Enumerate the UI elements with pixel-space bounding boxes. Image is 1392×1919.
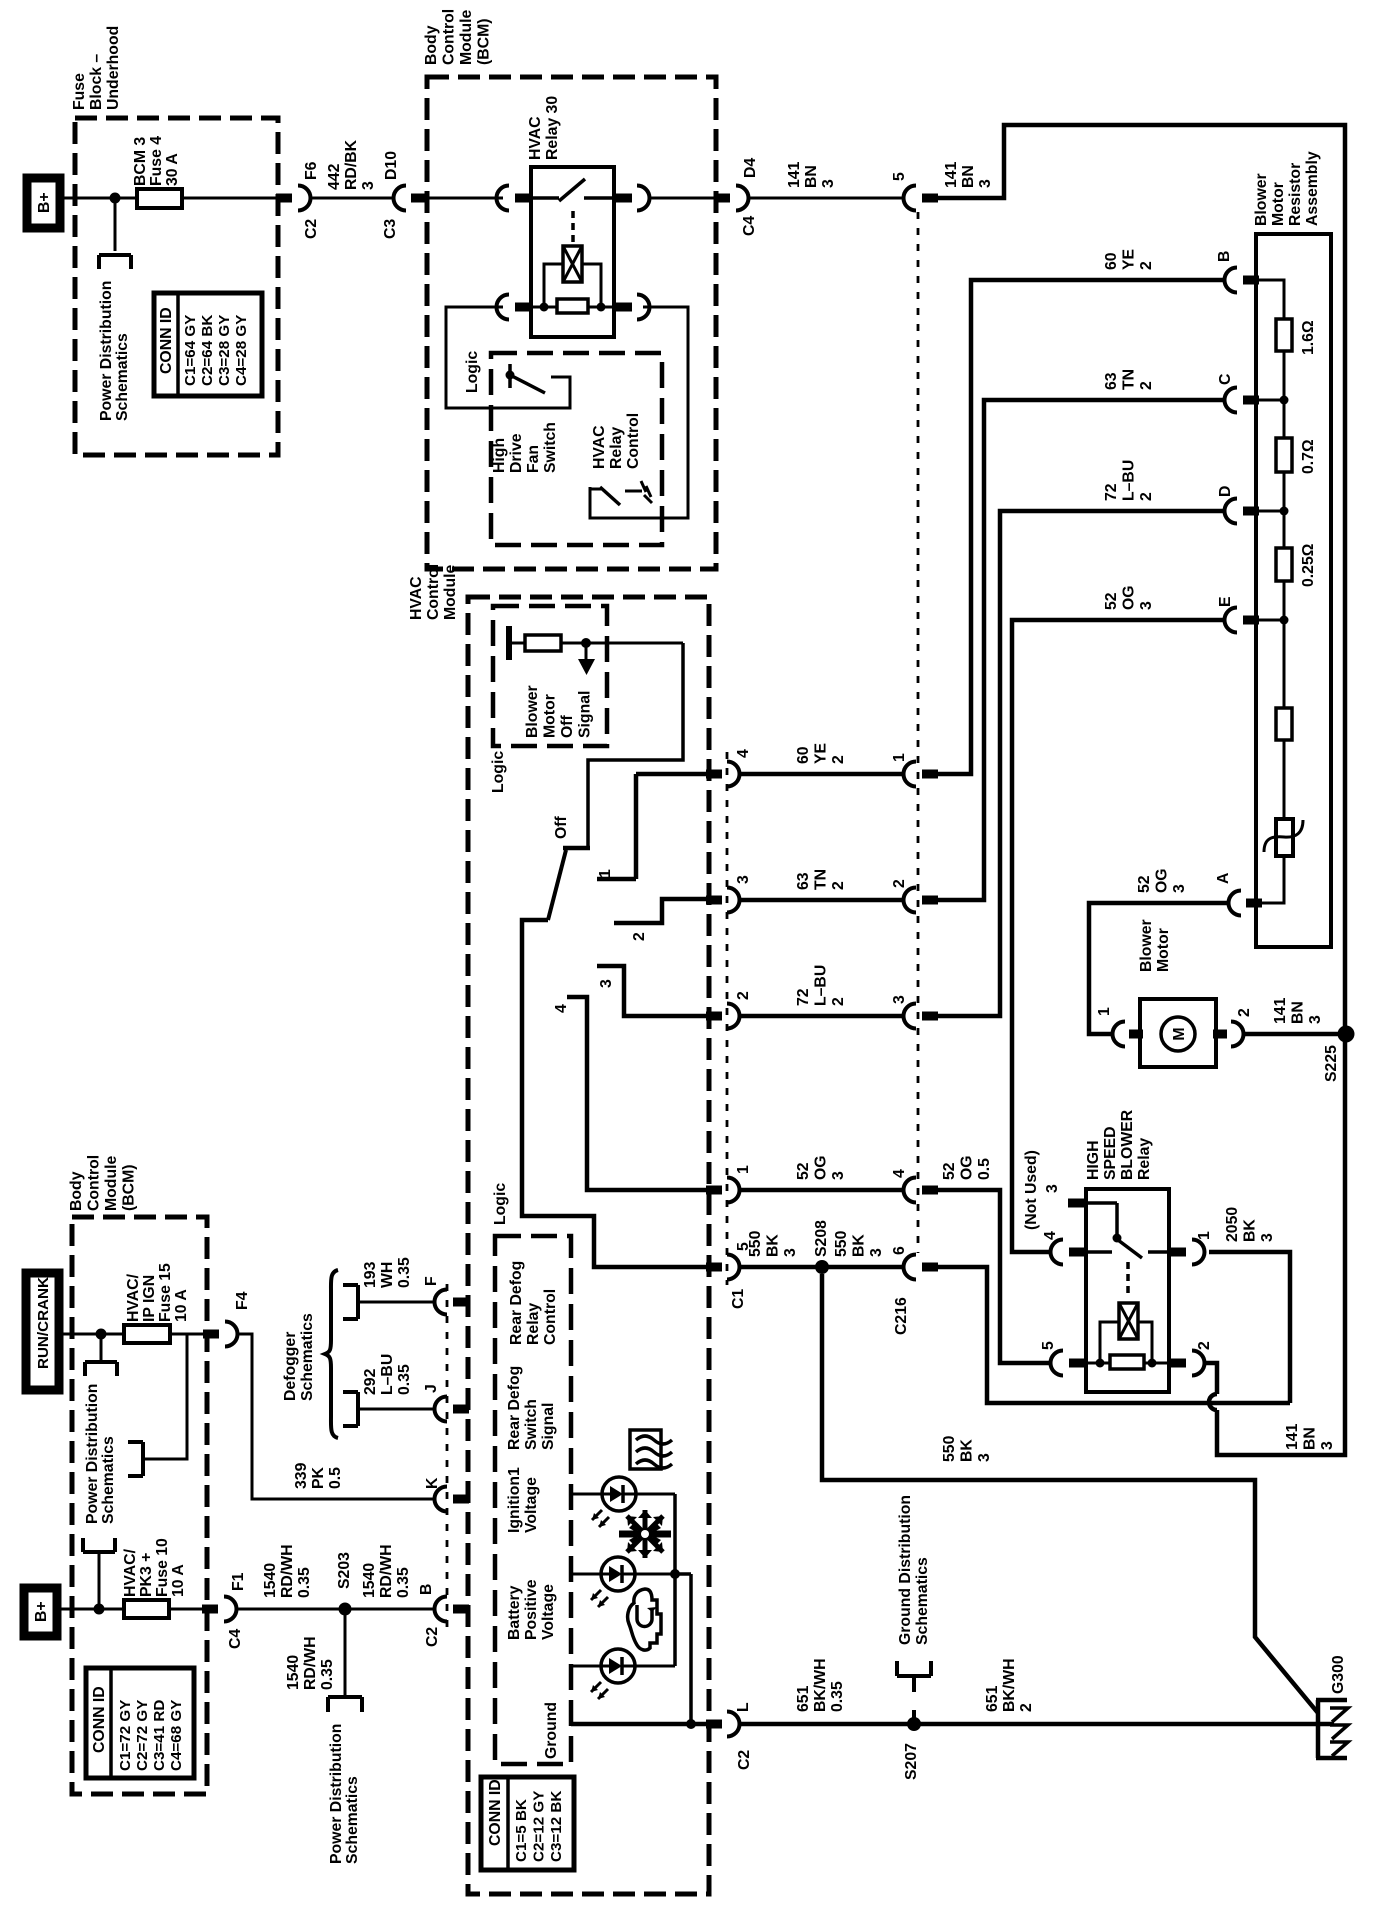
label G300	[1330, 1655, 1347, 1694]
svg-text:F4: F4	[234, 1291, 251, 1310]
svg-text:G300: G300	[1330, 1655, 1347, 1694]
svg-text:1: 1	[891, 753, 908, 762]
icon rear defog	[630, 1430, 672, 1469]
fan switch contact 3	[597, 966, 706, 1016]
wire LED2 out	[635, 1573, 691, 1576]
relay pin 2	[1170, 1351, 1205, 1376]
label relay pin 3	[1044, 1184, 1061, 1193]
label HVAC Relay 30	[527, 96, 561, 160]
label Rear Defog Switch Signal	[506, 1366, 557, 1450]
label L	[735, 1702, 752, 1712]
svg-text:2: 2	[735, 991, 752, 1000]
label pin E	[1217, 596, 1234, 607]
dashed box Body Control Module BCM 2	[72, 1217, 207, 1794]
wire 63 TN to resistor C	[938, 400, 1224, 900]
label pin D	[1217, 486, 1234, 497]
dashed box HVAC Control Module	[468, 597, 709, 1894]
thermal fuse	[1264, 819, 1303, 856]
relay 30 output wire to D4	[650, 197, 715, 200]
connector C3 terminal D10 (BCM entry)	[394, 186, 428, 211]
wire LED3 in	[571, 1665, 601, 1668]
label wire 1540 RD/WH (right)	[361, 1544, 412, 1598]
CONN ID table (BCM2)	[86, 1668, 194, 1778]
connector C216 pin 3	[904, 1004, 939, 1029]
connector HVAC C1 pin F	[434, 1290, 469, 1315]
page reference Ground Distribution	[897, 1661, 931, 1719]
splice junction on B+ feed	[110, 193, 121, 204]
fan switch contact 4	[567, 997, 706, 1190]
motor symbol M	[1161, 1017, 1195, 1051]
resistor 4 (unlabeled)	[1276, 708, 1292, 740]
svg-text:3: 3	[598, 979, 615, 988]
svg-text:4: 4	[1042, 1231, 1059, 1240]
hs relay coil parallel wiring	[1096, 1322, 1157, 1368]
connector HVAC C1 pin J	[434, 1397, 469, 1422]
relay 30 coil parallel wiring	[540, 264, 606, 312]
label fuse BCM 3	[132, 136, 181, 186]
label C3 (BCM)	[382, 219, 399, 239]
connector C1 pin 4	[706, 762, 740, 787]
label Blower Motor Off Signal	[524, 685, 594, 738]
relay 30 internal resistor	[530, 299, 620, 313]
svg-text:L: L	[735, 1702, 752, 1712]
label Blower Motor	[1138, 919, 1172, 972]
label (Not Used)	[1023, 1150, 1040, 1230]
label Power Distribution Schematics (S203)	[328, 1724, 361, 1864]
resistor chain top	[1258, 280, 1284, 319]
wire 52 OG 3	[740, 1188, 903, 1193]
wire 141 BN 3 (D4 to C216)	[749, 197, 903, 200]
label wire 52 OG 3 (left)	[795, 1155, 847, 1180]
svg-text:S203: S203	[336, 1552, 353, 1589]
dashed connector line C216	[917, 212, 920, 1253]
connector C1 pin 2	[706, 1004, 740, 1029]
svg-text:K: K	[424, 1477, 441, 1489]
label relay pin 2	[1196, 1341, 1213, 1350]
hs relay switch	[1086, 1240, 1169, 1258]
connector C1 pin 5	[706, 1255, 740, 1280]
splice on RUN/CRANK feed	[96, 1329, 107, 1340]
fuse BCM 3 / Fuse 4 / 30A	[137, 189, 276, 208]
svg-text:F1: F1	[230, 1572, 247, 1591]
indicator LED 3 (recirculation)	[591, 1649, 635, 1699]
label switch position 2	[631, 932, 648, 941]
fan switch pole wire to C1-5	[522, 920, 706, 1267]
svg-text:1.6Ω: 1.6Ω	[1300, 320, 1317, 355]
label switch position 1	[597, 869, 614, 878]
CONN ID table (fuse block)	[154, 293, 262, 396]
fan switch blade	[548, 850, 566, 920]
hs relay actuator dashed link	[1126, 1262, 1130, 1298]
relay box HVAC Relay 30	[531, 167, 614, 337]
svg-text:3: 3	[1044, 1184, 1061, 1193]
relay pin 3 stub	[1068, 1199, 1122, 1243]
relay pin 4	[1051, 1240, 1086, 1265]
label wire 141 BN 3 (after D4)	[786, 161, 837, 188]
svg-text:F: F	[423, 1276, 440, 1286]
wire resistor 4 to thermal fuse	[1283, 740, 1286, 819]
label wire 651 BK/WH 0.35	[795, 1658, 846, 1712]
label S225	[1323, 1045, 1340, 1082]
label wire 2050 BK 3	[1224, 1207, 1276, 1242]
label C1 pin 2	[735, 991, 752, 1000]
wire thermal fuse to pin A	[1258, 856, 1284, 903]
connector C216 pin 5	[904, 186, 939, 211]
label motor pin 1	[1096, 1007, 1113, 1016]
logic box (BCM high drive fan switch)	[446, 307, 570, 408]
label HVAC Relay Control	[591, 413, 642, 469]
svg-text:1: 1	[1096, 1007, 1113, 1016]
connector resistor pin B	[1225, 268, 1260, 293]
fan switch Off contact	[563, 846, 590, 851]
svg-text:Logic: Logic	[492, 1183, 509, 1225]
label HIGH SPEED BLOWER Relay	[1085, 1109, 1153, 1180]
wire blower off signal to Off contact	[588, 643, 683, 848]
svg-text:2: 2	[1196, 1341, 1213, 1350]
indicator LED 1 (rear defog)	[592, 1477, 636, 1527]
relay 30 switch	[531, 179, 620, 201]
connector C216 pin 1	[904, 762, 939, 787]
label fuse HVAC/IP IGN	[125, 1263, 190, 1322]
connector resistor pin C	[1225, 388, 1289, 413]
label Body Control Module (BCM)	[423, 9, 493, 65]
label J	[423, 1384, 440, 1393]
label C2 (fuse block)	[303, 219, 320, 239]
splice S208	[815, 1260, 829, 1274]
label High Drive Fan Switch	[491, 422, 559, 473]
splice S203	[339, 1603, 352, 1616]
wire 550 BK 3 (C1-5 to S208)	[740, 1265, 903, 1270]
svg-text:C1=64 GYC2=64 BKC3=28 GYC4=28: C1=64 GYC2=64 BKC3=28 GYC4=28 GY	[182, 315, 250, 386]
power symbol RUN/CRANK	[26, 1273, 59, 1390]
label wire 72 L-BU 2 (right)	[1103, 460, 1155, 501]
fuse HVAC/IP IGN Fuse 15 10A	[124, 1325, 204, 1343]
connector C216 pin 6	[904, 1255, 939, 1280]
label fuse HVAC/PK3+	[122, 1538, 187, 1597]
wire 60 YE 2	[740, 772, 903, 777]
ground G300	[1316, 1700, 1348, 1758]
wire 63 TN 2	[740, 898, 903, 903]
label Rear Defog Relay Control	[508, 1261, 559, 1345]
dashed connector line C1	[726, 752, 729, 1285]
blower off signal supply bar	[506, 626, 512, 660]
svg-text:S207: S207	[903, 1743, 920, 1780]
label wire 292 L-BU 0.35	[362, 1354, 413, 1395]
svg-text:J: J	[423, 1384, 440, 1393]
label C1 pin 5	[735, 1242, 752, 1251]
wire ignition to LED1	[571, 1493, 602, 1496]
label C1 pin 4	[735, 749, 752, 758]
wire 72 L-BU 2	[740, 1014, 903, 1019]
label C216 pin 2	[891, 879, 908, 888]
wire 52 OG 0.5 to relay pin 5	[938, 1190, 1050, 1363]
label switch position 4	[553, 1004, 570, 1013]
fan switch contact 2	[614, 899, 706, 923]
label Battery Positive Voltage	[506, 1579, 557, 1640]
label B (HVAC C2)	[418, 1584, 435, 1595]
connector C216 pin 2	[904, 888, 939, 913]
svg-text:C4: C4	[227, 1629, 244, 1649]
label relay pin 4	[1042, 1231, 1059, 1240]
wire 193 WH 0.35	[358, 1301, 434, 1304]
label wire 550 BK 3 (left)	[747, 1230, 799, 1257]
svg-text:(Not Used): (Not Used)	[1023, 1150, 1040, 1230]
relay 30 coil pin right	[616, 295, 650, 320]
label 0.25 ohm	[1300, 543, 1317, 587]
page reference Power Distribution (B+ lower)	[83, 1538, 115, 1552]
svg-text:E: E	[1217, 596, 1234, 607]
resistor 1.6 ohm	[1276, 319, 1292, 351]
svg-text:B: B	[418, 1584, 435, 1595]
box Blower Motor	[1140, 999, 1216, 1067]
svg-text:C2: C2	[303, 219, 320, 239]
svg-text:1: 1	[1196, 1231, 1213, 1240]
page reference Power Distribution (fuse block)	[99, 255, 131, 269]
svg-text:BatteryPositiveVoltage: BatteryPositiveVoltage	[506, 1579, 557, 1640]
connector HVAC C1 pin K	[434, 1487, 469, 1512]
dashed box logic blower motor off signal	[493, 606, 607, 746]
label Off	[553, 815, 570, 839]
page reference (ignition feed)	[128, 1442, 143, 1476]
label wire 52 OG 3 (E)	[1103, 585, 1155, 610]
label pin 5 (C216)	[891, 172, 908, 181]
label C1 pin 3	[735, 875, 752, 884]
relay 30 coil	[563, 246, 582, 282]
svg-text:F6: F6	[303, 161, 320, 180]
label wire 550 BK 3 (ground run)	[941, 1435, 993, 1462]
wire 52 OG 3 (E tap to relay pin 4)	[1012, 620, 1224, 1252]
label Blower Motor Resistor Assembly	[1253, 151, 1321, 226]
label C216	[893, 1297, 910, 1335]
label Ignition1 Voltage	[506, 1467, 540, 1533]
connector C1 pin 1	[706, 1178, 740, 1203]
power symbol B+ (lower)	[24, 1588, 57, 1636]
wire 60 YE to resistor B	[938, 280, 1224, 774]
svg-text:D4: D4	[742, 158, 759, 178]
wire LED2 in	[571, 1573, 601, 1576]
blower off signal arrow	[578, 643, 595, 675]
label wire 550 BK 3 (right of S208)	[833, 1230, 885, 1257]
LED bus to ground	[686, 1574, 696, 1729]
label wire 339 PK 0.5	[293, 1462, 344, 1489]
svg-text:M: M	[1171, 1027, 1188, 1040]
splice on B+ lower feed	[94, 1604, 105, 1615]
svg-text:CONN ID: CONN ID	[158, 307, 175, 374]
label Power Distribution Schematics (BCM2)	[84, 1384, 117, 1524]
box Blower Motor Resistor Assembly	[1256, 234, 1331, 947]
resistor 0.25 ohm	[1276, 548, 1292, 581]
splice S225	[1338, 1026, 1355, 1043]
relay box HIGH SPEED BLOWER Relay	[1086, 1189, 1169, 1392]
label C2 (HVAC bottom)	[736, 1750, 753, 1770]
svg-text:Logic: Logic	[464, 351, 481, 393]
label Logic (blower off)	[490, 751, 507, 793]
blower motor pin 2	[1213, 1022, 1244, 1047]
fan switch contact 1	[597, 774, 636, 879]
svg-text:193WH0.35: 193WH0.35	[362, 1257, 413, 1288]
label Ground	[543, 1702, 560, 1759]
relay pin 1	[1170, 1240, 1205, 1265]
wire 292 L-BU 0.35	[358, 1408, 434, 1411]
svg-text:5: 5	[891, 172, 908, 181]
indicator LED 2 (snowflake/AC)	[591, 1557, 635, 1607]
wire LED1 out	[636, 1493, 675, 1496]
svg-text:1: 1	[597, 869, 614, 878]
stub to power distribution ref (B+ lower)	[98, 1553, 101, 1609]
label C1	[730, 1289, 747, 1309]
svg-text:4: 4	[735, 749, 752, 758]
wire 0.25 to E tap	[1283, 581, 1286, 708]
label wire 63 TN 2 (left)	[795, 869, 847, 890]
icon snowflake	[619, 1510, 671, 1558]
brace Defogger Schematics	[325, 1270, 338, 1438]
svg-text:4: 4	[891, 1169, 908, 1178]
connector C4 terminal D4 (BCM exit)	[714, 186, 748, 211]
relay pin 5	[1051, 1351, 1086, 1376]
label C4 (BCM)	[741, 216, 758, 236]
wire relay 30 coil to driver	[590, 307, 688, 518]
label C1 pin 1	[735, 1165, 752, 1174]
wire 141 BN 3 (C216-5 to resistor assembly)	[938, 125, 1345, 1034]
label S203	[336, 1552, 353, 1589]
svg-text:A: A	[1215, 873, 1232, 884]
connector C4 terminal F1	[202, 1597, 237, 1622]
relay 30 switch output pin	[616, 186, 650, 211]
wire motor pin 2 to S225	[1244, 1032, 1345, 1037]
resistor 0.7 ohm	[1276, 438, 1292, 472]
page reference defogger F	[343, 1285, 358, 1319]
svg-text:3: 3	[891, 995, 908, 1004]
label wire 60 YE 2 (right)	[1103, 249, 1155, 270]
wire 339 PK 0.5	[238, 1334, 434, 1499]
wire LED3 out	[635, 1665, 675, 1668]
page reference Power Distribution (S203)	[328, 1697, 362, 1712]
label motor pin 2	[1236, 1008, 1253, 1017]
relay 30 actuator dashed link	[571, 211, 575, 245]
wire relay pin 2 to 141 BN	[1205, 1041, 1345, 1455]
wire 651 BK/WH 0.35	[740, 1722, 914, 1727]
svg-text:0.25Ω: 0.25Ω	[1300, 543, 1317, 587]
connector C216 pin 4	[904, 1178, 939, 1203]
dashed box Body Control Module BCM	[427, 77, 716, 569]
label HVAC Control Module	[408, 564, 459, 620]
wire 0.7 to D tap	[1283, 472, 1286, 548]
svg-text:B: B	[1216, 251, 1233, 262]
wire 651 BK/WH 2	[914, 1722, 1334, 1727]
label C4 (BCM2)	[227, 1629, 244, 1649]
wire 550 BK 3 (S208 to G300)	[822, 1274, 1318, 1713]
connector resistor pin A	[1229, 891, 1263, 916]
svg-text:C: C	[1217, 374, 1234, 385]
label Ground Distribution Schematics	[897, 1495, 931, 1645]
connector resistor pin E	[1225, 608, 1289, 633]
svg-text:Logic: Logic	[490, 751, 507, 793]
label wire 442 RD/BK 3	[326, 139, 377, 190]
label F1	[230, 1572, 247, 1591]
label Logic (fan switch)	[492, 1183, 509, 1225]
label 1.6 ohm	[1300, 320, 1317, 355]
blower off signal resistor	[512, 635, 683, 651]
wire RUN/CRANK to fuse	[59, 1333, 124, 1336]
label wire 141 BN 3 (relay)	[1284, 1423, 1336, 1450]
svg-text:1: 1	[735, 1165, 752, 1174]
svg-text:Off: Off	[553, 815, 570, 839]
svg-text:2: 2	[631, 932, 648, 941]
svg-text:S208: S208	[813, 1220, 830, 1257]
svg-text:C2: C2	[424, 1627, 441, 1647]
page reference Power Distribution (RUN/CRANK)	[85, 1362, 117, 1376]
label wire 72 L-BU 2 (left)	[795, 965, 847, 1006]
svg-text:Ground: Ground	[543, 1702, 560, 1759]
label relay pin 1	[1196, 1231, 1213, 1240]
fuse HVAC/PK3+ Fuse 10 10A	[124, 1600, 203, 1618]
wire D10 to HVAC relay	[427, 197, 503, 200]
page reference defogger J	[343, 1392, 358, 1426]
svg-text:CONN ID: CONN ID	[487, 1779, 504, 1846]
blower motor pin 1	[1113, 1022, 1144, 1047]
svg-text:6: 6	[891, 1246, 908, 1255]
wire stub to power distribution reference	[114, 198, 117, 251]
label Defogger Schematics	[282, 1313, 316, 1401]
wire 52 OG 3 (A to blower motor)	[1089, 903, 1228, 1034]
label wire 141 BN 3 (motor)	[1272, 997, 1324, 1024]
icon car recirculation	[628, 1589, 661, 1650]
label wire 1540 RD/WH (branch)	[285, 1636, 336, 1690]
wire fuse15 branch to page ref	[145, 1334, 187, 1459]
svg-text:C1: C1	[730, 1289, 747, 1309]
blower off signal junction	[581, 638, 591, 648]
label C216 pin 3	[891, 995, 908, 1004]
relay 30 coil pin left	[496, 295, 531, 320]
wire 1.6 to C tap	[1283, 351, 1286, 438]
wire 72 L-BU to resistor D	[938, 511, 1224, 1016]
power symbol B+ (fuse block feed)	[27, 178, 60, 228]
label pin A	[1215, 873, 1232, 884]
svg-text:2: 2	[891, 879, 908, 888]
connector C4 terminal F4	[203, 1322, 238, 1347]
wire S203 branch down	[344, 1609, 347, 1695]
label pin B	[1216, 251, 1233, 262]
label Fuse Block - Underhood	[71, 26, 122, 110]
dashed connector line HVAC left	[446, 1284, 449, 1630]
label C2 (HVAC)	[424, 1627, 441, 1647]
label 0.7 ohm	[1300, 439, 1317, 474]
dashed box logic (rear defog / indicators)	[495, 1236, 571, 1764]
label D4	[742, 158, 759, 178]
svg-text:4: 4	[553, 1004, 570, 1013]
ground wire (HVAC module)	[571, 1722, 706, 1727]
wire 550 BK to relay pin 1 link	[938, 1252, 1290, 1403]
svg-text:C3: C3	[382, 219, 399, 239]
svg-text:C1=72 GYC2=72 GYC3=41 RDC4=68: C1=72 GYC2=72 GYC3=41 RDC4=68 GY	[117, 1700, 185, 1771]
label S207	[903, 1743, 920, 1780]
label F6	[303, 161, 320, 180]
svg-text:S225: S225	[1323, 1045, 1340, 1082]
HVAC relay control driver symbol	[590, 481, 652, 505]
label wire 52 OG 3 (A)	[1136, 868, 1188, 893]
svg-text:0.7Ω: 0.7Ω	[1300, 439, 1317, 474]
label wire 60 YE 2 (left)	[795, 743, 847, 764]
svg-text:RUN/CRANK: RUN/CRANK	[35, 1277, 52, 1369]
label wire 651 BK/WH 2	[984, 1658, 1035, 1712]
svg-text:3: 3	[735, 875, 752, 884]
splice S207	[907, 1717, 921, 1731]
label C216 pin 1	[891, 753, 908, 762]
connector C2 terminal F6 (fuse block exit)	[276, 186, 311, 211]
label switch position 3	[598, 979, 615, 988]
wire contact 1 to C1-4	[636, 772, 706, 777]
label wire 63 TN 2 (right)	[1103, 369, 1155, 390]
